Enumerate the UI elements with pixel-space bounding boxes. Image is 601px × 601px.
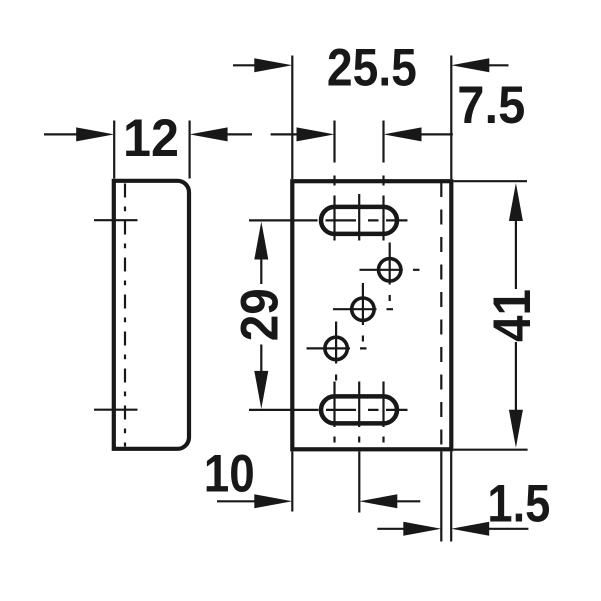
top slot right cap vertical centerline (382, 196, 384, 241)
dimension 1.5 left arrowhead (points right) (403, 522, 441, 536)
hole C crosshair (307, 322, 367, 381)
top slot left cap vertical centerline (333, 196, 335, 241)
top slot middle vertical centerline (358, 194, 360, 241)
dimension 1.5 left arrow tail (377, 528, 407, 530)
dimension 41 up arrowhead (509, 183, 523, 221)
dimension 12 right arrow tail (224, 133, 252, 135)
dimension 12 left extension line (113, 121, 115, 179)
dimension 29 up arrowhead (254, 222, 268, 260)
svg-text:25.5: 25.5 (327, 38, 417, 97)
hole A crosshair (360, 243, 420, 302)
dimension 25.5 left arrow tail (233, 64, 258, 66)
dimension 25.5 right arrow tail (486, 64, 509, 66)
front view plate outline (292, 181, 451, 449)
side view upper slot-axis tick (94, 219, 138, 221)
top slot (321, 207, 397, 234)
top slot horizontal centerline (249, 219, 408, 221)
dimension 7.5 right arrow tail (418, 133, 453, 135)
dimension 41 line lower segment (515, 342, 517, 412)
dimension 41 top extension line (454, 180, 528, 182)
dimension 10 right extension line (358, 452, 360, 513)
dimension 29 down arrowhead (254, 371, 268, 409)
dimension 10 right arrow tail (394, 500, 420, 502)
dimension 1.5 left extension line (440, 452, 442, 542)
dimension 12 right arrowhead (190, 127, 228, 141)
side view lower slot-axis tick (94, 409, 138, 411)
dimension 7.5 left arrow tail (271, 133, 300, 135)
dimension 1.5 right arrowhead (points left) (451, 522, 489, 536)
dimension 29 line upper segment (260, 256, 262, 284)
dimension 29 line lower segment (260, 345, 262, 375)
dimension 12 left arrowhead (76, 127, 114, 141)
dimension 41 down arrowhead (509, 410, 523, 448)
svg-text:10: 10 (204, 444, 255, 503)
dimension 10 left arrow tail (217, 500, 258, 502)
svg-text:29: 29 (231, 288, 290, 341)
front view bend dashed line (440, 182, 442, 447)
bottom slot right cap vertical centerline (382, 382, 384, 428)
dimension 7.5 left arrowhead (297, 127, 335, 141)
svg-text:12: 12 (123, 109, 179, 168)
dimension 1.5 right extension line (450, 452, 452, 542)
dimension 12 right extension line (189, 121, 191, 179)
dimension 25.5 right arrowhead (451, 58, 489, 72)
dimension 7.5 left extension dash-dot (333, 121, 335, 186)
bottom slot centerline dots below plate (335, 437, 384, 443)
dimension 10 left extension line (291, 452, 293, 512)
hole C (bottom) (325, 337, 347, 359)
hole B crosshair (333, 283, 393, 342)
dimension 7.5 right extension dash-dot (382, 121, 384, 186)
dimension 25.5 left arrowhead (254, 58, 292, 72)
hole B (middle) (352, 298, 374, 320)
hole A (top) (379, 259, 401, 281)
svg-text:1.5: 1.5 (487, 474, 550, 533)
svg-text:7.5: 7.5 (457, 76, 525, 135)
bottom slot horizontal centerline (249, 409, 408, 411)
svg-text:41: 41 (483, 289, 542, 342)
side view center dash-dot line (124, 184, 126, 447)
bottom slot middle vertical centerline (358, 382, 360, 428)
bottom slot left cap vertical centerline (333, 382, 335, 428)
dimension 1.5 right arrow tail (486, 528, 528, 530)
dimension 10 left arrowhead (points right) (254, 494, 292, 508)
dimension 41 line upper segment (515, 218, 517, 289)
dimension 25.5 left extension line (291, 56, 293, 180)
dimension 25.5 right extension line (450, 56, 452, 180)
dimension 12 left arrow tail (44, 133, 80, 135)
dimension 41 bottom extension line (454, 449, 528, 451)
dimension 10 right arrowhead (points left) (359, 494, 397, 508)
dimension 7.5 right arrowhead (384, 127, 422, 141)
bottom slot (321, 396, 397, 423)
side view outline (114, 181, 189, 449)
